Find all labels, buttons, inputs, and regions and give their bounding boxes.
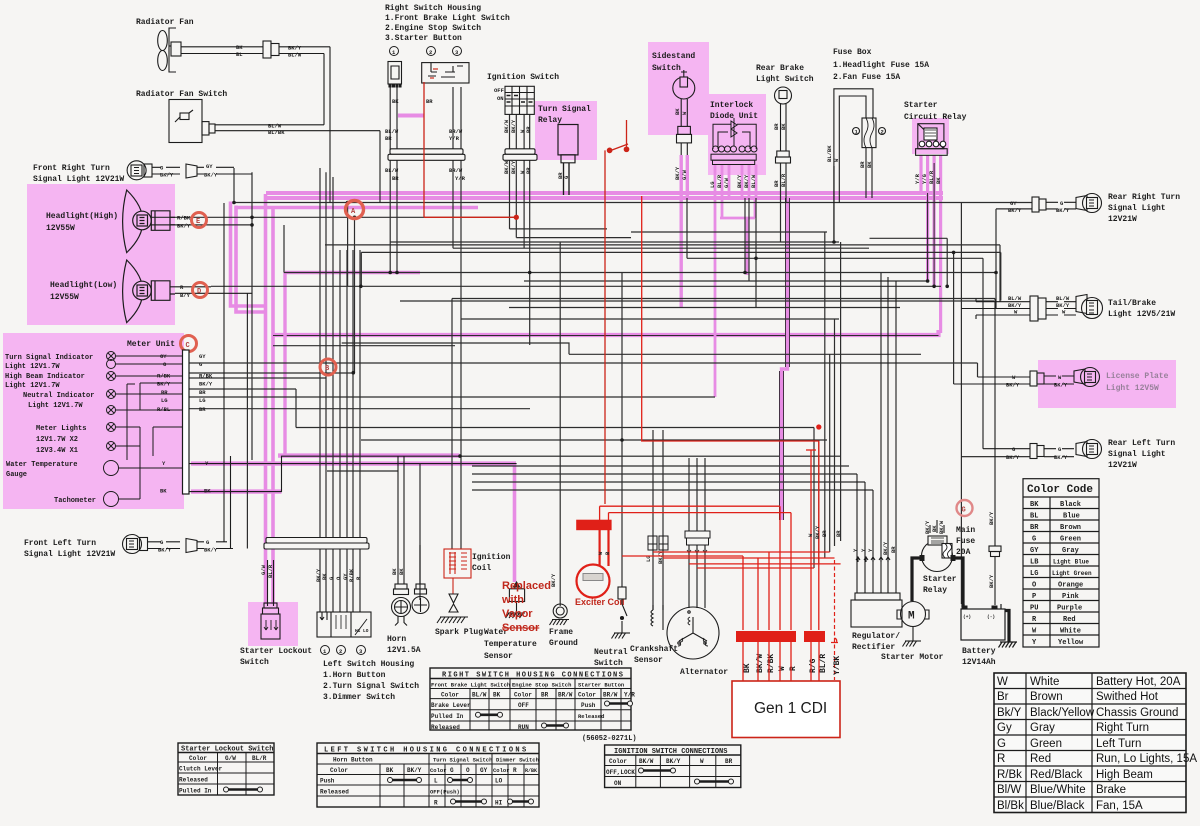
fuse box xyxy=(833,48,929,82)
svg-text:Gray: Gray xyxy=(1030,722,1055,734)
svg-text:Color: Color xyxy=(609,758,627,765)
svg-text:License Plate: License Plate xyxy=(1106,372,1169,381)
right table contact bars xyxy=(478,704,630,726)
battery BKY feed connector xyxy=(989,299,1001,606)
svg-text:Replaced: Replaced xyxy=(502,580,551,592)
svg-text:3.Dimmer Switch: 3.Dimmer Switch xyxy=(323,693,395,702)
svg-text:Color: Color xyxy=(330,767,348,774)
svg-text:R/BK: R/BK xyxy=(348,568,355,582)
svg-text:BR: BR xyxy=(385,135,392,142)
rear right turn signal light xyxy=(1032,194,1102,213)
svg-text:Horn: Horn xyxy=(387,635,406,644)
svg-text:Headlight(Low): Headlight(Low) xyxy=(50,281,117,290)
svg-text:with: with xyxy=(501,594,524,606)
svg-text:BL/W: BL/W xyxy=(1008,295,1022,302)
svg-text:Left Turn: Left Turn xyxy=(1096,738,1141,750)
radiator fan connector xyxy=(263,41,330,59)
svg-text:Bl/W: Bl/W xyxy=(997,784,1021,796)
svg-text:BK: BK xyxy=(391,568,398,575)
svg-text:Switch: Switch xyxy=(594,659,623,668)
svg-text:LG: LG xyxy=(199,397,206,404)
svg-text:Light 12V1.7W: Light 12V1.7W xyxy=(5,382,60,390)
color code table xyxy=(1023,479,1099,647)
svg-text:P: P xyxy=(1032,593,1036,601)
svg-text:Neutral Indicator: Neutral Indicator xyxy=(23,392,94,400)
svg-text:D: D xyxy=(197,288,201,296)
wire starter relay black cores xyxy=(928,163,935,286)
svg-text:R/Bk: R/Bk xyxy=(997,769,1022,781)
svg-text:Spark Plug: Spark Plug xyxy=(435,628,483,637)
svg-text:Pulled In: Pulled In xyxy=(179,788,212,795)
pink wire sidestand drops xyxy=(681,155,687,307)
svg-text:Y/R: Y/R xyxy=(914,173,921,184)
svg-text:GY: GY xyxy=(480,767,488,774)
highlight block interlock diode unit xyxy=(708,94,766,175)
svg-text:BK/Y: BK/Y xyxy=(882,541,889,555)
svg-text:BL/W: BL/W xyxy=(385,167,399,174)
ignition switch lower labels xyxy=(503,160,532,174)
svg-text:Green: Green xyxy=(1030,738,1062,750)
horn xyxy=(392,456,411,625)
circled numbers left housing xyxy=(321,646,366,656)
svg-text:L: L xyxy=(434,778,438,785)
svg-text:BR: BR xyxy=(426,98,433,105)
svg-text:Blue: Blue xyxy=(1063,513,1080,521)
pink wire bus horizontal top pair xyxy=(266,193,943,198)
svg-text:E: E xyxy=(196,218,200,226)
svg-text:BK/Y: BK/Y xyxy=(550,573,557,587)
wire color legend table xyxy=(994,673,1186,813)
svg-text:Ignition: Ignition xyxy=(472,553,511,562)
svg-text:GY: GY xyxy=(206,163,213,170)
svg-text:Gauge: Gauge xyxy=(6,471,27,479)
svg-text:Battery: Battery xyxy=(962,647,996,656)
svg-text:Red: Red xyxy=(1030,753,1051,765)
svg-text:1.Front Brake Light Switch: 1.Front Brake Light Switch xyxy=(385,14,510,23)
svg-text:BK: BK xyxy=(743,663,752,673)
svg-text:BR/W: BR/W xyxy=(603,692,618,699)
svg-text:BK: BK xyxy=(321,573,328,580)
svg-text:LG: LG xyxy=(161,397,168,404)
svg-text:Exciter Coil: Exciter Coil xyxy=(575,597,625,607)
svg-text:LO: LO xyxy=(495,778,503,785)
right switch housing engine stop and starter xyxy=(422,63,469,83)
svg-text:Color: Color xyxy=(514,692,532,699)
main fuse xyxy=(942,544,952,559)
svg-text:HI: HI xyxy=(355,628,361,634)
frame ground xyxy=(550,604,570,625)
right switch housing heading xyxy=(385,4,510,43)
svg-text:ON: ON xyxy=(614,780,622,787)
svg-text:BK/Y: BK/Y xyxy=(1054,454,1068,461)
svg-text:BK/Y: BK/Y xyxy=(988,511,995,525)
svg-text:HI: HI xyxy=(495,800,503,807)
svg-text:BR/W: BR/W xyxy=(449,167,463,174)
svg-text:Yellow: Yellow xyxy=(1058,639,1084,647)
crankshaft sensor xyxy=(651,605,663,630)
svg-text:BR: BR xyxy=(773,123,780,130)
svg-text:BK: BK xyxy=(236,44,243,51)
svg-text:BL/R: BL/R xyxy=(267,564,274,578)
svg-text:Vapor: Vapor xyxy=(502,608,533,620)
svg-text:BR: BR xyxy=(725,758,733,765)
svg-text:BR/W: BR/W xyxy=(558,692,573,699)
svg-text:BK/Y: BK/Y xyxy=(510,119,517,133)
svg-text:Color: Color xyxy=(430,767,447,774)
circled letter G xyxy=(957,500,973,516)
starter motor xyxy=(897,602,929,647)
svg-text:GY: GY xyxy=(1030,547,1039,555)
highlight block sidestand switch xyxy=(648,42,709,135)
svg-text:BK/Y: BK/Y xyxy=(1008,207,1022,214)
pink wire meter Y line xyxy=(191,461,516,465)
svg-text:G/W: G/W xyxy=(681,169,688,180)
battery terminal squares xyxy=(920,555,998,611)
part number xyxy=(582,735,637,743)
circled letter B xyxy=(320,359,336,375)
svg-text:Headlight(High): Headlight(High) xyxy=(46,212,118,221)
radiator fan xyxy=(158,28,263,72)
exciter coil xyxy=(577,520,612,597)
svg-text:Light 12V1.7W: Light 12V1.7W xyxy=(5,363,60,371)
svg-text:2: 2 xyxy=(881,129,884,136)
svg-text:High Beam: High Beam xyxy=(1096,769,1153,781)
svg-text:C: C xyxy=(186,342,190,350)
water temperature sensor xyxy=(412,545,429,614)
svg-text:BK/Y: BK/Y xyxy=(988,574,995,588)
svg-text:12V21W: 12V21W xyxy=(1108,215,1137,224)
svg-text:Battery Hot, 20A: Battery Hot, 20A xyxy=(1096,676,1181,688)
svg-text:Turn Signal Indicator: Turn Signal Indicator xyxy=(5,354,93,362)
svg-text:BR: BR xyxy=(773,180,780,187)
svg-text:BK/Y: BK/Y xyxy=(924,520,931,534)
svg-text:20A: 20A xyxy=(956,548,971,557)
svg-text:BK/Y: BK/Y xyxy=(666,758,681,765)
left switch housing box xyxy=(317,612,371,637)
svg-text:BK: BK xyxy=(392,98,399,105)
starter lockout switch xyxy=(261,560,280,639)
svg-text:12V3.4W X1: 12V3.4W X1 xyxy=(36,447,78,455)
svg-text:R/BK: R/BK xyxy=(199,373,213,380)
svg-text:High Beam Indicator: High Beam Indicator xyxy=(5,373,85,381)
right switch housing front brake switch xyxy=(388,62,402,88)
svg-text:(+): (+) xyxy=(963,614,971,620)
svg-text:BL/W: BL/W xyxy=(472,692,487,699)
circled letter E xyxy=(192,213,207,228)
svg-text:Y/G: Y/G xyxy=(921,173,928,184)
svg-text:M: M xyxy=(908,611,915,623)
highlight block license plate light xyxy=(1038,360,1176,408)
svg-text:(56052-0271L): (56052-0271L) xyxy=(582,735,637,743)
pink wire right switch jog xyxy=(398,114,424,118)
svg-text:G/W: G/W xyxy=(260,564,267,575)
vapor sensor box xyxy=(506,582,526,618)
svg-text:Front Brake Light Switch: Front Brake Light Switch xyxy=(431,682,510,689)
svg-text:BK/Y: BK/Y xyxy=(288,45,302,52)
svg-text:Meter Lights: Meter Lights xyxy=(36,425,86,433)
meter unit title and circled letter C xyxy=(127,336,197,352)
svg-text:Ignition Switch: Ignition Switch xyxy=(487,73,559,82)
svg-text:G: G xyxy=(997,738,1006,750)
svg-text:BK: BK xyxy=(935,177,942,184)
svg-text:OFF,LOCK: OFF,LOCK xyxy=(606,769,635,776)
svg-text:Y/R: Y/R xyxy=(455,175,466,182)
svg-text:Alternator: Alternator xyxy=(680,668,728,677)
svg-text:BK/Y: BK/Y xyxy=(1006,454,1020,461)
svg-text:2.Turn Signal Switch: 2.Turn Signal Switch xyxy=(323,682,419,691)
sidestand switch xyxy=(652,52,695,73)
svg-text:BK: BK xyxy=(398,568,405,575)
svg-text:RIGHT SWITCH HOUSING CONNECTIO: RIGHT SWITCH HOUSING CONNECTIONS xyxy=(442,672,624,680)
left switch housing heading xyxy=(323,660,419,702)
meter unit indicator bulbs and internal wires xyxy=(104,352,183,507)
svg-text:BK/Y: BK/Y xyxy=(736,174,743,188)
battery xyxy=(961,604,1017,648)
svg-text:BL/W: BL/W xyxy=(288,52,302,59)
svg-text:Engine Stop Switch: Engine Stop Switch xyxy=(512,682,571,689)
left switch housing harness connector bar xyxy=(264,538,369,550)
svg-text:White: White xyxy=(1060,628,1081,636)
right switch housing lower labels xyxy=(385,167,466,182)
svg-text:Light Blue: Light Blue xyxy=(1053,559,1089,566)
svg-text:G: G xyxy=(450,767,454,774)
svg-text:BL/R: BL/R xyxy=(780,173,787,187)
svg-text:BL: BL xyxy=(236,51,243,58)
crank connector xyxy=(648,536,668,550)
svg-text:G: G xyxy=(1032,536,1036,544)
svg-text:BK/Y: BK/Y xyxy=(158,547,172,554)
svg-text:Clutch Lever: Clutch Lever xyxy=(179,766,223,773)
svg-text:BR: BR xyxy=(525,126,532,133)
svg-text:Starter Motor: Starter Motor xyxy=(881,653,944,662)
svg-text:Signal Light 12V21W: Signal Light 12V21W xyxy=(24,550,115,559)
rear brake light switch xyxy=(756,64,814,84)
pink wire CDI BR drop xyxy=(782,198,788,520)
right switch housing connections table xyxy=(430,668,631,730)
svg-text:BK/Y: BK/Y xyxy=(177,223,191,230)
svg-text:R: R xyxy=(434,800,438,807)
svg-text:BR: BR xyxy=(859,161,866,168)
wire red CDI harness xyxy=(600,196,841,630)
svg-text:BK/Y: BK/Y xyxy=(1054,382,1068,389)
svg-text:BL/R: BL/R xyxy=(819,654,828,673)
ignition switch wire labels xyxy=(503,119,532,133)
svg-text:G: G xyxy=(962,507,966,515)
svg-text:BK/Y: BK/Y xyxy=(204,172,218,179)
svg-text:LG: LG xyxy=(709,181,716,188)
svg-text:White: White xyxy=(1030,676,1059,688)
svg-text:Black: Black xyxy=(1060,501,1081,509)
svg-text:Radiator Fan: Radiator Fan xyxy=(136,18,194,27)
svg-text:2: 2 xyxy=(429,49,432,56)
wire radiator fan feed verticals xyxy=(324,47,330,203)
radiator fan switch xyxy=(169,100,380,203)
svg-text:BR: BR xyxy=(821,530,828,537)
svg-text:BL/R: BL/R xyxy=(928,170,935,184)
alternator connector xyxy=(685,531,710,553)
svg-text:GY: GY xyxy=(1010,200,1017,207)
CDI pin labels xyxy=(743,654,842,675)
svg-text:Gen 1 CDI: Gen 1 CDI xyxy=(754,700,827,717)
svg-text:R/BK: R/BK xyxy=(525,768,537,774)
svg-text:12V1.5A: 12V1.5A xyxy=(387,646,421,655)
svg-text:R: R xyxy=(997,753,1005,765)
svg-text:Temperature: Temperature xyxy=(484,640,537,649)
svg-text:Released: Released xyxy=(179,777,208,784)
svg-text:BK/Y: BK/Y xyxy=(204,547,218,554)
pink wire vapor sensor feed xyxy=(513,464,517,582)
svg-text:Fan, 15A: Fan, 15A xyxy=(1096,800,1143,812)
svg-text:Light 12V5/21W: Light 12V5/21W xyxy=(1108,310,1175,319)
svg-text:Ground: Ground xyxy=(549,639,578,648)
svg-text:Push: Push xyxy=(320,778,335,785)
svg-text:Sensor: Sensor xyxy=(502,622,540,634)
svg-text:R/BK: R/BK xyxy=(177,215,191,222)
pink wire vertical pair B lockout feed xyxy=(266,194,274,604)
license plate light xyxy=(954,368,1100,387)
highlight block starter circuit relay xyxy=(912,118,949,154)
wire long verticals mesh xyxy=(234,87,1001,612)
svg-text:Switch: Switch xyxy=(652,64,681,73)
pink wire vertical pair A turn signal feed xyxy=(231,202,266,313)
circled letter A xyxy=(346,201,364,219)
svg-text:Fuse: Fuse xyxy=(956,537,975,546)
svg-text:Gray: Gray xyxy=(1062,547,1080,555)
svg-text:ON: ON xyxy=(497,95,504,102)
svg-text:W: W xyxy=(700,758,704,765)
svg-text:BK/W: BK/W xyxy=(503,119,510,133)
svg-text:Tachometer: Tachometer xyxy=(54,497,96,505)
svg-text:Bl/Bk: Bl/Bk xyxy=(997,800,1024,812)
svg-text:BK/Y: BK/Y xyxy=(510,160,517,174)
svg-text:G/W: G/W xyxy=(723,177,730,188)
svg-text:BK/W: BK/W xyxy=(503,160,510,174)
wire long horizontals mesh xyxy=(148,203,1032,491)
pink wire bus second horizontal xyxy=(236,206,478,210)
svg-text:2.Engine Stop Switch: 2.Engine Stop Switch xyxy=(385,24,481,33)
pink wire bus mid horizontal xyxy=(273,330,939,335)
ignition table contact bars xyxy=(641,771,731,782)
svg-text:Red/Black: Red/Black xyxy=(1030,769,1083,781)
svg-text:BR: BR xyxy=(392,175,399,182)
svg-text:Regulator/: Regulator/ xyxy=(852,632,900,641)
svg-text:BR: BR xyxy=(199,389,206,396)
pink wire meter BK jog line xyxy=(191,456,460,492)
svg-text:Red: Red xyxy=(1063,616,1076,624)
interlock diode unit xyxy=(710,101,758,121)
svg-text:Signal Light: Signal Light xyxy=(1108,204,1166,213)
svg-text:LB: LB xyxy=(1030,559,1039,567)
svg-text:BK/Y: BK/Y xyxy=(814,525,821,539)
svg-text:Brake: Brake xyxy=(1096,784,1126,796)
svg-text:Chassis Ground: Chassis Ground xyxy=(1096,707,1178,719)
tail brake light xyxy=(961,295,1102,322)
svg-text:Color: Color xyxy=(578,692,596,699)
svg-text:BR: BR xyxy=(525,167,532,174)
svg-text:Color Code: Color Code xyxy=(1027,484,1093,496)
svg-text:BK/W: BK/W xyxy=(639,758,654,765)
svg-text:BR: BR xyxy=(541,692,549,699)
svg-text:GY: GY xyxy=(199,353,206,360)
svg-text:OFF: OFF xyxy=(518,702,529,709)
svg-text:Light 12V1.7W: Light 12V1.7W xyxy=(28,402,83,410)
meter unit labels xyxy=(5,354,96,505)
svg-text:Purple: Purple xyxy=(1057,605,1082,613)
svg-text:BL: BL xyxy=(1030,513,1038,521)
svg-text:BK/W: BK/W xyxy=(938,520,945,534)
svg-text:Light Green: Light Green xyxy=(1052,570,1092,577)
wire thick battery cables xyxy=(912,558,1009,642)
svg-text:BK/Y: BK/Y xyxy=(674,166,681,180)
svg-text:Brake Lever: Brake Lever xyxy=(431,702,471,709)
svg-text:Sensor: Sensor xyxy=(634,656,663,665)
svg-text:Released: Released xyxy=(320,789,349,796)
svg-text:W: W xyxy=(997,676,1008,688)
svg-text:Starter Lockout: Starter Lockout xyxy=(240,647,312,656)
svg-text:BR: BR xyxy=(161,389,168,396)
svg-text:Rectifier: Rectifier xyxy=(852,643,895,652)
svg-text:Brown: Brown xyxy=(1060,524,1081,532)
svg-text:R/BK: R/BK xyxy=(157,373,171,380)
svg-text:Pink: Pink xyxy=(1062,593,1079,601)
svg-text:Y/R: Y/R xyxy=(449,135,460,142)
svg-text:BK: BK xyxy=(866,161,873,168)
svg-text:Light Switch: Light Switch xyxy=(756,75,814,84)
wire BR pair to CDI area xyxy=(780,198,790,520)
svg-text:Main: Main xyxy=(956,526,975,535)
svg-text:2: 2 xyxy=(339,648,342,655)
wire red sidestand mod switch xyxy=(605,120,629,504)
svg-text:Pulled In: Pulled In xyxy=(431,713,464,720)
svg-text:Signal Light: Signal Light xyxy=(1108,450,1166,459)
svg-text:OFF(Push): OFF(Push) xyxy=(430,789,460,796)
turn signal relay xyxy=(538,105,591,125)
svg-text:Right Switch Housing: Right Switch Housing xyxy=(385,4,481,13)
pink wire interlock drops xyxy=(715,165,756,398)
svg-text:Rear Brake: Rear Brake xyxy=(756,64,804,73)
svg-text:LO: LO xyxy=(363,628,369,634)
svg-text:BR/W: BR/W xyxy=(449,128,463,135)
pink wire starter circuit relay drops xyxy=(921,155,941,333)
svg-text:BK: BK xyxy=(674,108,681,115)
svg-text:Blue/White: Blue/White xyxy=(1030,784,1086,796)
svg-text:12V21W: 12V21W xyxy=(1108,461,1137,470)
svg-text:Color: Color xyxy=(493,767,510,774)
wire red CDI dashed YBK xyxy=(831,560,838,680)
svg-text:Y/R: Y/R xyxy=(624,692,635,699)
svg-text:Frame: Frame xyxy=(549,628,573,637)
svg-text:Starter Lockout Switch: Starter Lockout Switch xyxy=(181,746,273,754)
svg-text:BK: BK xyxy=(386,767,394,774)
svg-text:BR: BR xyxy=(890,546,897,553)
svg-text:Front Left Turn: Front Left Turn xyxy=(24,539,96,548)
svg-text:BK/Y: BK/Y xyxy=(157,381,171,388)
front right turn signal light xyxy=(127,161,252,180)
svg-text:R: R xyxy=(513,767,517,774)
svg-text:Front Right Turn: Front Right Turn xyxy=(33,164,110,173)
svg-text:Y/BK: Y/BK xyxy=(833,656,842,675)
svg-text:Br: Br xyxy=(997,691,1009,703)
replaced with vapor sensor note xyxy=(501,580,551,634)
svg-text:Neutral: Neutral xyxy=(594,648,628,657)
svg-text:BR: BR xyxy=(199,406,206,413)
wire red CDI stubs to box xyxy=(743,642,819,681)
CDI connector red bars xyxy=(736,631,825,642)
svg-text:BL/W: BL/W xyxy=(385,128,399,135)
alternator xyxy=(667,607,719,659)
rear left turn signal light xyxy=(961,440,1101,459)
svg-text:BL/BK: BL/BK xyxy=(826,145,833,162)
